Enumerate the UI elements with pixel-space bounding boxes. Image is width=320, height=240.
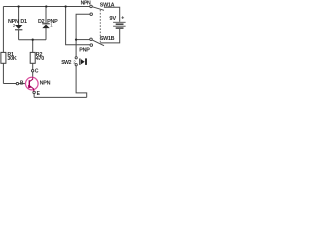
battery BT1 9V plates xyxy=(113,22,126,28)
wire D2 branch upper xyxy=(45,7,47,24)
diode D2 xyxy=(42,23,50,28)
transistor emitter lead xyxy=(30,86,34,91)
probe terminal B xyxy=(16,82,18,84)
wire R2 to C probe xyxy=(32,63,34,69)
switch SW1B arm xyxy=(92,40,104,46)
wire left rail lower xyxy=(2,63,4,83)
junction node dots xyxy=(17,5,77,41)
wire SW2 up to node xyxy=(75,40,77,57)
svg-text:B: B xyxy=(20,81,24,87)
wire B probe to transistor xyxy=(19,83,26,85)
wire to base probe xyxy=(3,83,16,85)
resistor R2 xyxy=(30,52,35,63)
transistor emitter arrow xyxy=(28,85,32,89)
switch throw contact circles xyxy=(90,5,93,46)
transistor collector lead xyxy=(30,77,33,81)
wire diode bottom bus xyxy=(19,39,46,41)
wire SW1A pole to battery plus xyxy=(104,7,120,22)
wire E probe down xyxy=(33,94,35,98)
wire bottom rail xyxy=(34,96,87,98)
svg-text:9V: 9V xyxy=(109,16,116,22)
svg-text:SW1B: SW1B xyxy=(100,36,115,42)
transistor base bar xyxy=(28,80,30,87)
switch gang dashed link xyxy=(99,10,101,43)
svg-text:D1: D1 xyxy=(20,19,27,25)
wire D2 branch lower xyxy=(45,28,47,40)
wire D1 branch lower xyxy=(18,30,20,40)
wire D1 branch upper xyxy=(18,7,20,26)
wire node to SW1B top throw xyxy=(76,39,90,41)
probe terminal C xyxy=(32,70,34,72)
diode D1 xyxy=(15,25,22,30)
svg-text:NPN: NPN xyxy=(81,1,91,7)
svg-text:SW2: SW2 xyxy=(61,60,71,66)
wire V1 rail to SW1B lower throw xyxy=(66,7,91,45)
svg-text:C: C xyxy=(35,69,39,75)
probe terminal E xyxy=(33,91,35,93)
wire top rail xyxy=(3,6,89,8)
pushbutton SW2 actuator xyxy=(79,58,87,65)
resistor R1 xyxy=(1,52,6,63)
pushbutton SW2 contacts xyxy=(75,57,77,66)
svg-text:PNP: PNP xyxy=(47,19,58,25)
svg-text:NPN: NPN xyxy=(40,80,51,86)
wire bottom right jog up to SW2 xyxy=(76,66,87,98)
transistor Q under test body xyxy=(26,77,39,90)
wire R2 branch xyxy=(32,40,34,53)
switch SW1A arm xyxy=(92,7,104,11)
wire SW1A lower throw leg xyxy=(76,14,90,39)
svg-text:SW1A: SW1A xyxy=(100,2,115,8)
svg-text:E: E xyxy=(37,91,41,97)
wire left rail upper xyxy=(2,7,4,53)
svg-text:470: 470 xyxy=(36,56,44,62)
wire C probe to transistor xyxy=(32,72,34,77)
wire SW1B pole to battery minus xyxy=(100,29,119,43)
svg-text:PNP: PNP xyxy=(79,47,90,53)
svg-text:30K: 30K xyxy=(7,56,16,62)
svg-text:+: + xyxy=(121,16,124,22)
svg-text:D2: D2 xyxy=(38,19,45,25)
